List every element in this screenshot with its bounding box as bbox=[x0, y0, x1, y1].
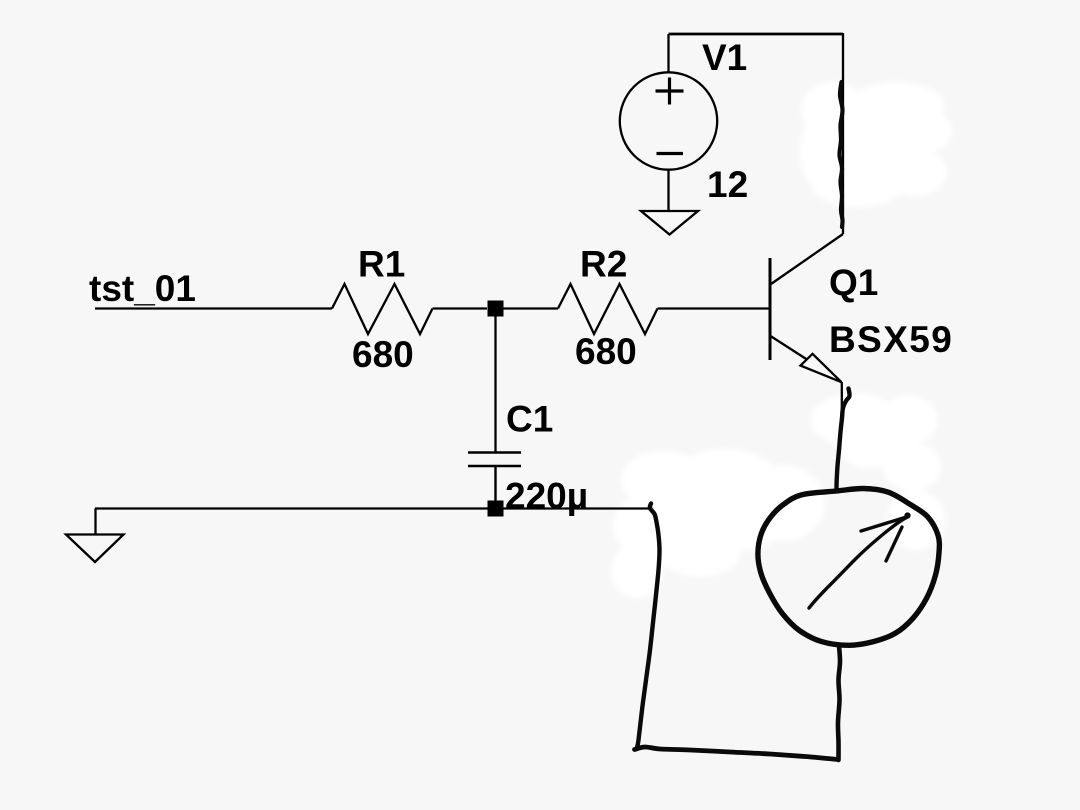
wire: node A to R2 bbox=[503, 307, 558, 309]
svg-text:680: 680 bbox=[352, 334, 414, 375]
wire: diagonal to collector bbox=[771, 234, 843, 284]
resistor R1 bbox=[332, 284, 433, 334]
resistor R2 bbox=[558, 284, 658, 334]
hand-drawn needle barb left bbox=[861, 517, 908, 532]
svg-text:R1: R1 bbox=[358, 244, 405, 285]
hand-drawn needle tip dot bbox=[904, 512, 910, 518]
hand-drawn bottom wire bbox=[635, 747, 839, 760]
wire: ground rail bbox=[95, 507, 651, 509]
hand-drawn meter circle bbox=[758, 488, 940, 645]
whiteout smudge top (right of V1) bbox=[800, 82, 952, 207]
hand-drawn needle barb down bbox=[886, 527, 902, 561]
svg-text:12: 12 bbox=[707, 164, 748, 205]
hand-drawn meter needle bbox=[809, 517, 909, 609]
capacitor C1 bbox=[468, 453, 521, 502]
wire: collector drop bbox=[842, 33, 844, 234]
hand-drawn left return wire bbox=[637, 504, 660, 748]
svg-text:C1: C1 bbox=[506, 399, 553, 440]
whiteout smudge band (left of meter) bbox=[611, 449, 825, 598]
transistor Q1 bbox=[770, 258, 842, 409]
hand-drawn wire from emitter to meter bbox=[837, 389, 850, 491]
node A junction square bbox=[488, 301, 504, 317]
svg-text:BSX59: BSX59 bbox=[829, 319, 953, 360]
wire: drop to left ground bbox=[94, 509, 96, 535]
wire: input net from tst_01 to R1 bbox=[95, 307, 332, 309]
wire: node A down to C1 bbox=[494, 309, 496, 453]
svg-text:V1: V1 bbox=[702, 37, 747, 78]
wire: R2 to Q1 base bbox=[658, 307, 770, 309]
whiteout smudge middle (below BSX59) bbox=[811, 393, 945, 550]
hand-drawn wire over collector bbox=[839, 82, 842, 227]
node B junction square bbox=[488, 501, 504, 517]
voltage source V1 bbox=[620, 34, 717, 211]
hand-drawn wire below meter bbox=[838, 646, 840, 760]
ground (below V1) bbox=[641, 211, 698, 235]
svg-text:R2: R2 bbox=[580, 244, 627, 285]
svg-text:680: 680 bbox=[575, 331, 637, 372]
svg-text:tst_01: tst_01 bbox=[89, 268, 196, 309]
svg-text:Q1: Q1 bbox=[829, 262, 878, 303]
ground (left) bbox=[66, 535, 124, 563]
wire: R1 to node A bbox=[433, 307, 488, 309]
svg-text:220µ: 220µ bbox=[505, 476, 588, 517]
wire: V1 top rail bbox=[669, 33, 844, 36]
